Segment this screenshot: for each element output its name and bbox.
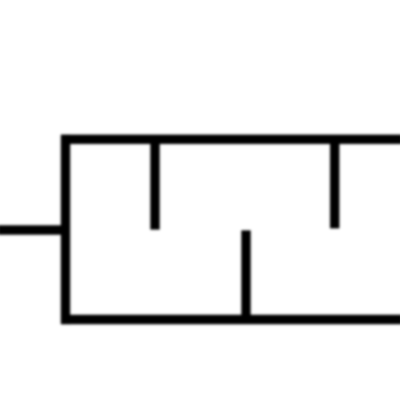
wire left vertical edge bbox=[61, 135, 70, 324]
wire top finger 1 bbox=[150, 138, 159, 230]
wire bottom rail bbox=[61, 315, 400, 324]
wire bottom finger bbox=[241, 230, 250, 321]
wire left lead bbox=[0, 225, 67, 234]
wire top rail bbox=[61, 135, 400, 144]
wire top finger 2 bbox=[330, 138, 339, 228]
